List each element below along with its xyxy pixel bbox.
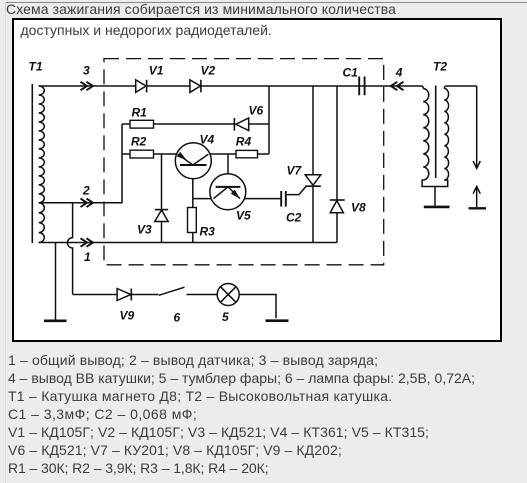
svg-text:Т2: Т2 [433,59,447,73]
svg-text:R2: R2 [131,134,147,148]
svg-text:V5: V5 [236,209,251,223]
svg-text:С2: С2 [286,211,302,225]
svg-text:6: 6 [174,311,181,325]
svg-text:3: 3 [83,64,90,78]
svg-text:V4: V4 [200,133,215,147]
svg-text:V8: V8 [351,201,366,215]
svg-text:V7: V7 [287,164,303,178]
svg-text:V9: V9 [120,309,135,323]
svg-text:V2: V2 [201,64,216,78]
svg-text:С1: С1 [343,65,359,79]
svg-text:5: 5 [222,310,229,324]
svg-text:4: 4 [395,65,403,79]
svg-text:2: 2 [82,184,90,198]
svg-text:R4: R4 [236,134,252,148]
svg-text:Т1: Т1 [29,60,43,74]
svg-text:V3: V3 [137,223,152,237]
svg-text:V1: V1 [149,64,164,78]
svg-text:R3: R3 [200,225,216,239]
svg-text:1: 1 [84,250,91,264]
svg-text:R1: R1 [132,105,148,119]
svg-text:V6: V6 [249,104,264,118]
